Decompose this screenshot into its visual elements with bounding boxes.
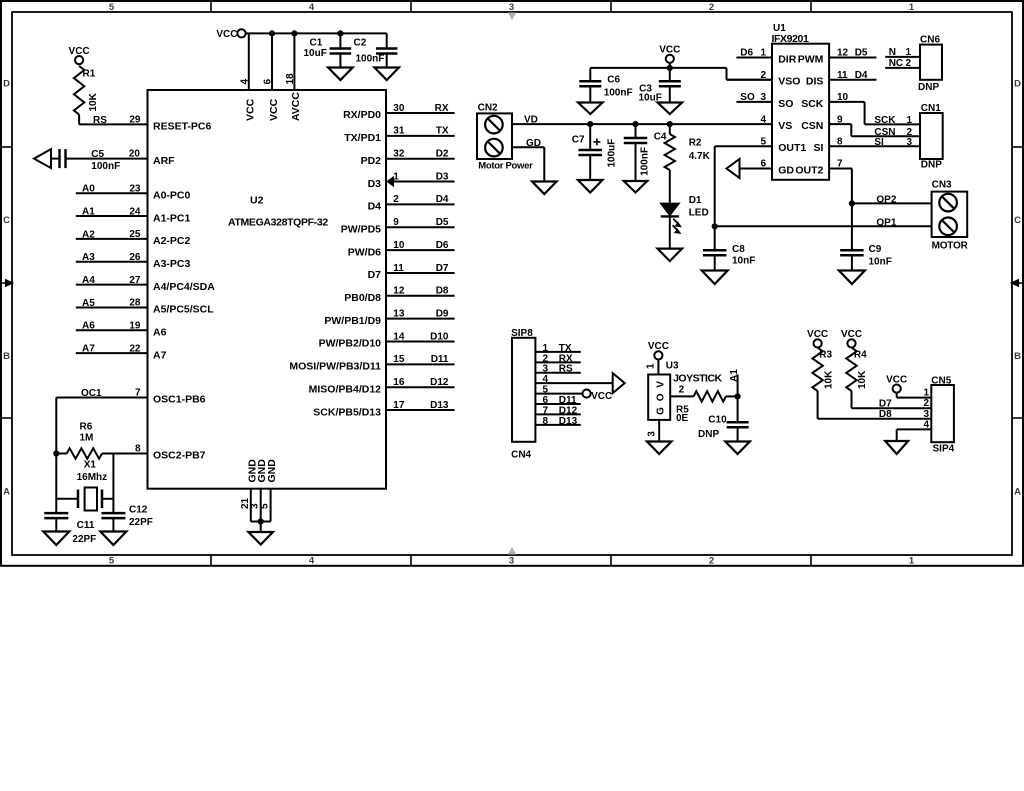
svg-text:30: 30 xyxy=(393,103,405,114)
svg-text:1: 1 xyxy=(760,48,766,59)
svg-text:D7: D7 xyxy=(368,269,382,281)
svg-text:TX/PD1: TX/PD1 xyxy=(344,132,381,144)
svg-text:A4/PC4/SDA: A4/PC4/SDA xyxy=(153,281,215,293)
svg-text:A3: A3 xyxy=(82,252,95,263)
svg-text:10K: 10K xyxy=(857,370,868,389)
svg-text:B: B xyxy=(1014,351,1021,362)
svg-text:R3: R3 xyxy=(819,350,832,361)
svg-text:8: 8 xyxy=(837,137,843,148)
svg-text:2: 2 xyxy=(393,194,399,205)
svg-text:D11: D11 xyxy=(559,395,577,406)
svg-text:D: D xyxy=(1014,79,1021,90)
svg-text:17: 17 xyxy=(393,400,405,411)
svg-text:CN5: CN5 xyxy=(931,375,951,386)
svg-text:PB0/D8: PB0/D8 xyxy=(344,292,381,304)
svg-text:RX: RX xyxy=(559,353,573,364)
svg-text:9: 9 xyxy=(837,114,843,125)
svg-text:D12: D12 xyxy=(430,377,449,388)
svg-text:R4: R4 xyxy=(854,350,867,361)
svg-text:A: A xyxy=(3,487,10,498)
svg-text:3: 3 xyxy=(509,2,514,13)
svg-text:D13: D13 xyxy=(559,416,578,427)
svg-text:18: 18 xyxy=(285,73,296,85)
svg-text:GD: GD xyxy=(526,138,541,149)
svg-text:4: 4 xyxy=(924,419,930,430)
svg-text:1: 1 xyxy=(646,363,657,369)
svg-text:VSO: VSO xyxy=(778,76,800,88)
svg-text:1: 1 xyxy=(909,556,915,567)
svg-text:24: 24 xyxy=(129,206,141,217)
svg-text:D8: D8 xyxy=(879,409,892,420)
svg-text:1: 1 xyxy=(906,115,912,126)
svg-text:D7: D7 xyxy=(879,398,892,409)
svg-text:28: 28 xyxy=(129,298,141,309)
svg-text:A7: A7 xyxy=(82,344,95,355)
svg-text:DNP: DNP xyxy=(698,429,719,440)
svg-text:OUT1: OUT1 xyxy=(778,142,806,154)
svg-text:A4: A4 xyxy=(82,275,95,286)
svg-text:10: 10 xyxy=(393,240,405,251)
svg-text:27: 27 xyxy=(129,275,141,286)
svg-text:C: C xyxy=(3,215,10,226)
svg-text:R1: R1 xyxy=(83,69,96,80)
svg-text:3: 3 xyxy=(760,92,766,103)
svg-text:D5: D5 xyxy=(855,48,868,59)
svg-text:10nF: 10nF xyxy=(732,255,755,266)
svg-text:C12: C12 xyxy=(129,505,148,516)
svg-text:VCC: VCC xyxy=(659,45,680,56)
svg-text:A1: A1 xyxy=(729,369,740,382)
svg-text:D13: D13 xyxy=(430,400,449,411)
svg-text:SI: SI xyxy=(813,142,823,154)
svg-text:C: C xyxy=(1014,215,1021,226)
svg-text:A7: A7 xyxy=(153,349,167,361)
svg-text:25: 25 xyxy=(129,229,141,240)
svg-text:2: 2 xyxy=(709,2,714,13)
svg-text:A0-PC0: A0-PC0 xyxy=(153,189,191,201)
svg-text:CN2: CN2 xyxy=(478,102,498,113)
svg-text:CN6: CN6 xyxy=(920,34,940,45)
svg-text:23: 23 xyxy=(129,183,141,194)
svg-text:RX: RX xyxy=(435,103,449,114)
svg-text:A2-PC2: A2-PC2 xyxy=(153,235,191,247)
svg-text:VCC: VCC xyxy=(69,46,90,57)
svg-text:D11: D11 xyxy=(431,354,449,365)
svg-text:R6: R6 xyxy=(80,421,93,432)
svg-text:15: 15 xyxy=(393,354,405,365)
svg-text:VCC: VCC xyxy=(216,29,237,40)
svg-text:4: 4 xyxy=(309,556,315,567)
svg-text:D3: D3 xyxy=(368,178,382,190)
svg-text:RS: RS xyxy=(93,115,107,126)
svg-text:CN3: CN3 xyxy=(932,179,952,190)
svg-text:VCC: VCC xyxy=(268,98,280,121)
svg-text:D12: D12 xyxy=(559,405,578,416)
svg-text:G O V: G O V xyxy=(655,380,666,415)
svg-text:12: 12 xyxy=(837,48,849,59)
svg-text:1: 1 xyxy=(905,47,911,58)
svg-text:VCC: VCC xyxy=(245,98,257,121)
svg-text:RX/PD0: RX/PD0 xyxy=(343,109,381,121)
svg-text:RS: RS xyxy=(559,364,573,375)
svg-text:100nF: 100nF xyxy=(91,161,120,172)
svg-text:D: D xyxy=(3,79,10,90)
svg-text:JOYSTICK: JOYSTICK xyxy=(673,373,722,385)
svg-text:11: 11 xyxy=(837,70,848,81)
svg-text:RESET-PC6: RESET-PC6 xyxy=(153,121,212,133)
svg-text:PW/D6: PW/D6 xyxy=(348,246,381,258)
svg-text:4: 4 xyxy=(309,2,315,13)
svg-text:4: 4 xyxy=(239,79,250,85)
svg-text:3: 3 xyxy=(906,137,912,148)
svg-text:TX: TX xyxy=(436,126,449,137)
svg-text:C11: C11 xyxy=(77,520,95,531)
svg-text:C8: C8 xyxy=(732,244,745,255)
svg-text:9: 9 xyxy=(393,217,399,228)
svg-text:C5: C5 xyxy=(91,149,104,160)
svg-text:U2: U2 xyxy=(250,195,264,207)
svg-text:1: 1 xyxy=(909,2,915,13)
svg-text:SO: SO xyxy=(740,92,755,103)
svg-text:VCC: VCC xyxy=(807,329,828,340)
svg-text:OSC1-PB6: OSC1-PB6 xyxy=(153,394,206,406)
svg-text:X1: X1 xyxy=(84,460,97,471)
svg-text:11: 11 xyxy=(393,263,404,274)
svg-text:0E: 0E xyxy=(676,413,689,424)
svg-text:29: 29 xyxy=(129,115,141,126)
svg-text:SIP8: SIP8 xyxy=(511,328,533,339)
svg-text:3: 3 xyxy=(509,556,514,567)
svg-text:U3: U3 xyxy=(666,360,679,371)
svg-text:IFX9201: IFX9201 xyxy=(772,33,809,45)
svg-text:26: 26 xyxy=(129,252,141,263)
svg-text:16Mhz: 16Mhz xyxy=(77,472,108,483)
svg-text:5: 5 xyxy=(109,556,115,567)
svg-text:GD: GD xyxy=(778,164,794,176)
svg-text:LED: LED xyxy=(689,208,709,219)
svg-text:3: 3 xyxy=(647,431,658,437)
svg-text:D6: D6 xyxy=(436,240,449,251)
svg-text:2: 2 xyxy=(709,556,714,567)
svg-text:OP1: OP1 xyxy=(876,217,896,228)
svg-text:SI: SI xyxy=(874,137,884,148)
svg-text:CN1: CN1 xyxy=(921,103,941,114)
svg-text:DIS: DIS xyxy=(806,76,824,88)
svg-text:22PF: 22PF xyxy=(72,534,96,545)
svg-text:100nF: 100nF xyxy=(640,147,651,176)
svg-text:MISO/PB4/D12: MISO/PB4/D12 xyxy=(309,383,382,395)
svg-text:1: 1 xyxy=(393,171,399,182)
svg-text:AVCC: AVCC xyxy=(290,92,302,121)
svg-text:D9: D9 xyxy=(436,308,449,319)
svg-text:10uF: 10uF xyxy=(304,48,327,59)
svg-text:ATMEGA328TQPF-32: ATMEGA328TQPF-32 xyxy=(228,217,328,229)
svg-text:PW/PD5: PW/PD5 xyxy=(341,223,381,235)
svg-text:NC: NC xyxy=(889,58,903,69)
svg-text:A6: A6 xyxy=(153,327,167,339)
svg-text:2: 2 xyxy=(679,384,685,395)
svg-text:N: N xyxy=(889,47,896,58)
svg-text:PW/PB2/D10: PW/PB2/D10 xyxy=(319,338,382,350)
svg-text:6: 6 xyxy=(263,79,274,85)
svg-text:SCK: SCK xyxy=(874,115,896,126)
svg-text:D4: D4 xyxy=(436,194,449,205)
svg-text:A6: A6 xyxy=(82,321,95,332)
svg-text:Motor Power: Motor Power xyxy=(478,161,533,172)
svg-text:D5: D5 xyxy=(436,217,449,228)
svg-text:2: 2 xyxy=(760,70,766,81)
svg-text:A1: A1 xyxy=(82,206,95,217)
svg-text:A0: A0 xyxy=(82,184,95,195)
svg-text:VCC: VCC xyxy=(591,391,612,402)
svg-text:DNP: DNP xyxy=(921,160,942,171)
svg-text:D2: D2 xyxy=(436,149,449,160)
svg-text:5: 5 xyxy=(109,2,115,13)
svg-text:C10: C10 xyxy=(708,415,727,426)
svg-text:OP2: OP2 xyxy=(876,194,896,205)
svg-text:D3: D3 xyxy=(436,171,449,182)
svg-text:4.7K: 4.7K xyxy=(689,151,711,162)
svg-text:10nF: 10nF xyxy=(869,256,892,267)
svg-text:5: 5 xyxy=(760,137,766,148)
svg-text:1: 1 xyxy=(924,388,930,399)
svg-text:DNP: DNP xyxy=(918,82,939,93)
svg-text:VD: VD xyxy=(524,115,538,126)
svg-text:TX: TX xyxy=(559,343,572,354)
svg-text:A5: A5 xyxy=(82,298,95,309)
svg-text:A5/PC5/SCL: A5/PC5/SCL xyxy=(153,304,214,316)
svg-text:16: 16 xyxy=(393,377,405,388)
svg-text:12: 12 xyxy=(393,286,405,297)
svg-text:MOTOR: MOTOR xyxy=(932,240,969,251)
svg-text:C2: C2 xyxy=(354,38,367,49)
svg-text:PWM: PWM xyxy=(798,53,824,65)
svg-text:100uF: 100uF xyxy=(607,139,618,168)
svg-text:OSC2-PB7: OSC2-PB7 xyxy=(153,450,206,462)
svg-text:2: 2 xyxy=(924,398,930,409)
svg-text:D10: D10 xyxy=(430,331,449,342)
svg-text:14: 14 xyxy=(393,331,405,342)
svg-text:R2: R2 xyxy=(689,138,702,149)
svg-text:D1: D1 xyxy=(689,195,702,206)
svg-text:4: 4 xyxy=(760,114,766,125)
svg-text:D4: D4 xyxy=(368,201,382,213)
svg-text:GND: GND xyxy=(266,459,278,483)
svg-text:10K: 10K xyxy=(823,370,834,389)
svg-text:VCC: VCC xyxy=(648,341,669,352)
svg-text:ARF: ARF xyxy=(153,155,175,167)
svg-text:VCC: VCC xyxy=(886,374,907,385)
svg-text:OC1: OC1 xyxy=(81,388,102,399)
svg-text:19: 19 xyxy=(129,321,141,332)
svg-text:C9: C9 xyxy=(869,244,882,255)
svg-text:2: 2 xyxy=(905,58,911,69)
svg-text:20: 20 xyxy=(129,149,141,160)
svg-text:D6: D6 xyxy=(740,48,753,59)
svg-text:MOSI/PW/PB3/D11: MOSI/PW/PB3/D11 xyxy=(289,361,381,373)
svg-text:7: 7 xyxy=(837,159,843,170)
svg-text:D7: D7 xyxy=(436,263,449,274)
svg-text:D8: D8 xyxy=(436,286,449,297)
svg-text:3: 3 xyxy=(924,409,930,420)
svg-text:31: 31 xyxy=(393,126,405,137)
svg-text:C7: C7 xyxy=(572,134,585,145)
svg-text:SCK/PB5/D13: SCK/PB5/D13 xyxy=(313,406,381,418)
svg-text:CN4: CN4 xyxy=(511,450,531,461)
svg-text:DIR: DIR xyxy=(778,53,797,65)
svg-text:PW/PB1/D9: PW/PB1/D9 xyxy=(324,315,381,327)
svg-text:100nF: 100nF xyxy=(604,87,633,98)
svg-text:A: A xyxy=(1014,487,1021,498)
svg-text:22: 22 xyxy=(129,343,141,354)
svg-text:10: 10 xyxy=(837,92,849,103)
svg-text:13: 13 xyxy=(393,308,405,319)
svg-text:OUT2: OUT2 xyxy=(795,164,823,176)
svg-text:B: B xyxy=(3,351,10,362)
svg-text:A3-PC3: A3-PC3 xyxy=(153,258,191,270)
svg-text:A2: A2 xyxy=(82,229,95,240)
svg-text:C6: C6 xyxy=(607,75,620,86)
svg-text:10K: 10K xyxy=(88,92,99,111)
svg-text:D4: D4 xyxy=(855,70,868,81)
svg-text:7: 7 xyxy=(135,388,141,399)
svg-text:VS: VS xyxy=(778,120,792,132)
svg-text:CSN: CSN xyxy=(801,120,823,132)
svg-text:PD2: PD2 xyxy=(361,155,382,167)
svg-text:SIP4: SIP4 xyxy=(933,444,955,455)
svg-text:100nF: 100nF xyxy=(356,54,385,65)
svg-text:SCK: SCK xyxy=(801,98,824,110)
svg-text:8: 8 xyxy=(135,444,141,455)
svg-text:5: 5 xyxy=(260,503,271,509)
svg-text:1M: 1M xyxy=(80,433,94,444)
svg-text:VCC: VCC xyxy=(841,329,862,340)
svg-text:SO: SO xyxy=(778,98,793,110)
svg-text:32: 32 xyxy=(393,149,405,160)
svg-text:22PF: 22PF xyxy=(129,517,153,528)
svg-text:A1-PC1: A1-PC1 xyxy=(153,212,191,224)
svg-text:6: 6 xyxy=(760,159,766,170)
svg-text:C4: C4 xyxy=(654,131,667,142)
svg-text:10uF: 10uF xyxy=(639,92,662,103)
